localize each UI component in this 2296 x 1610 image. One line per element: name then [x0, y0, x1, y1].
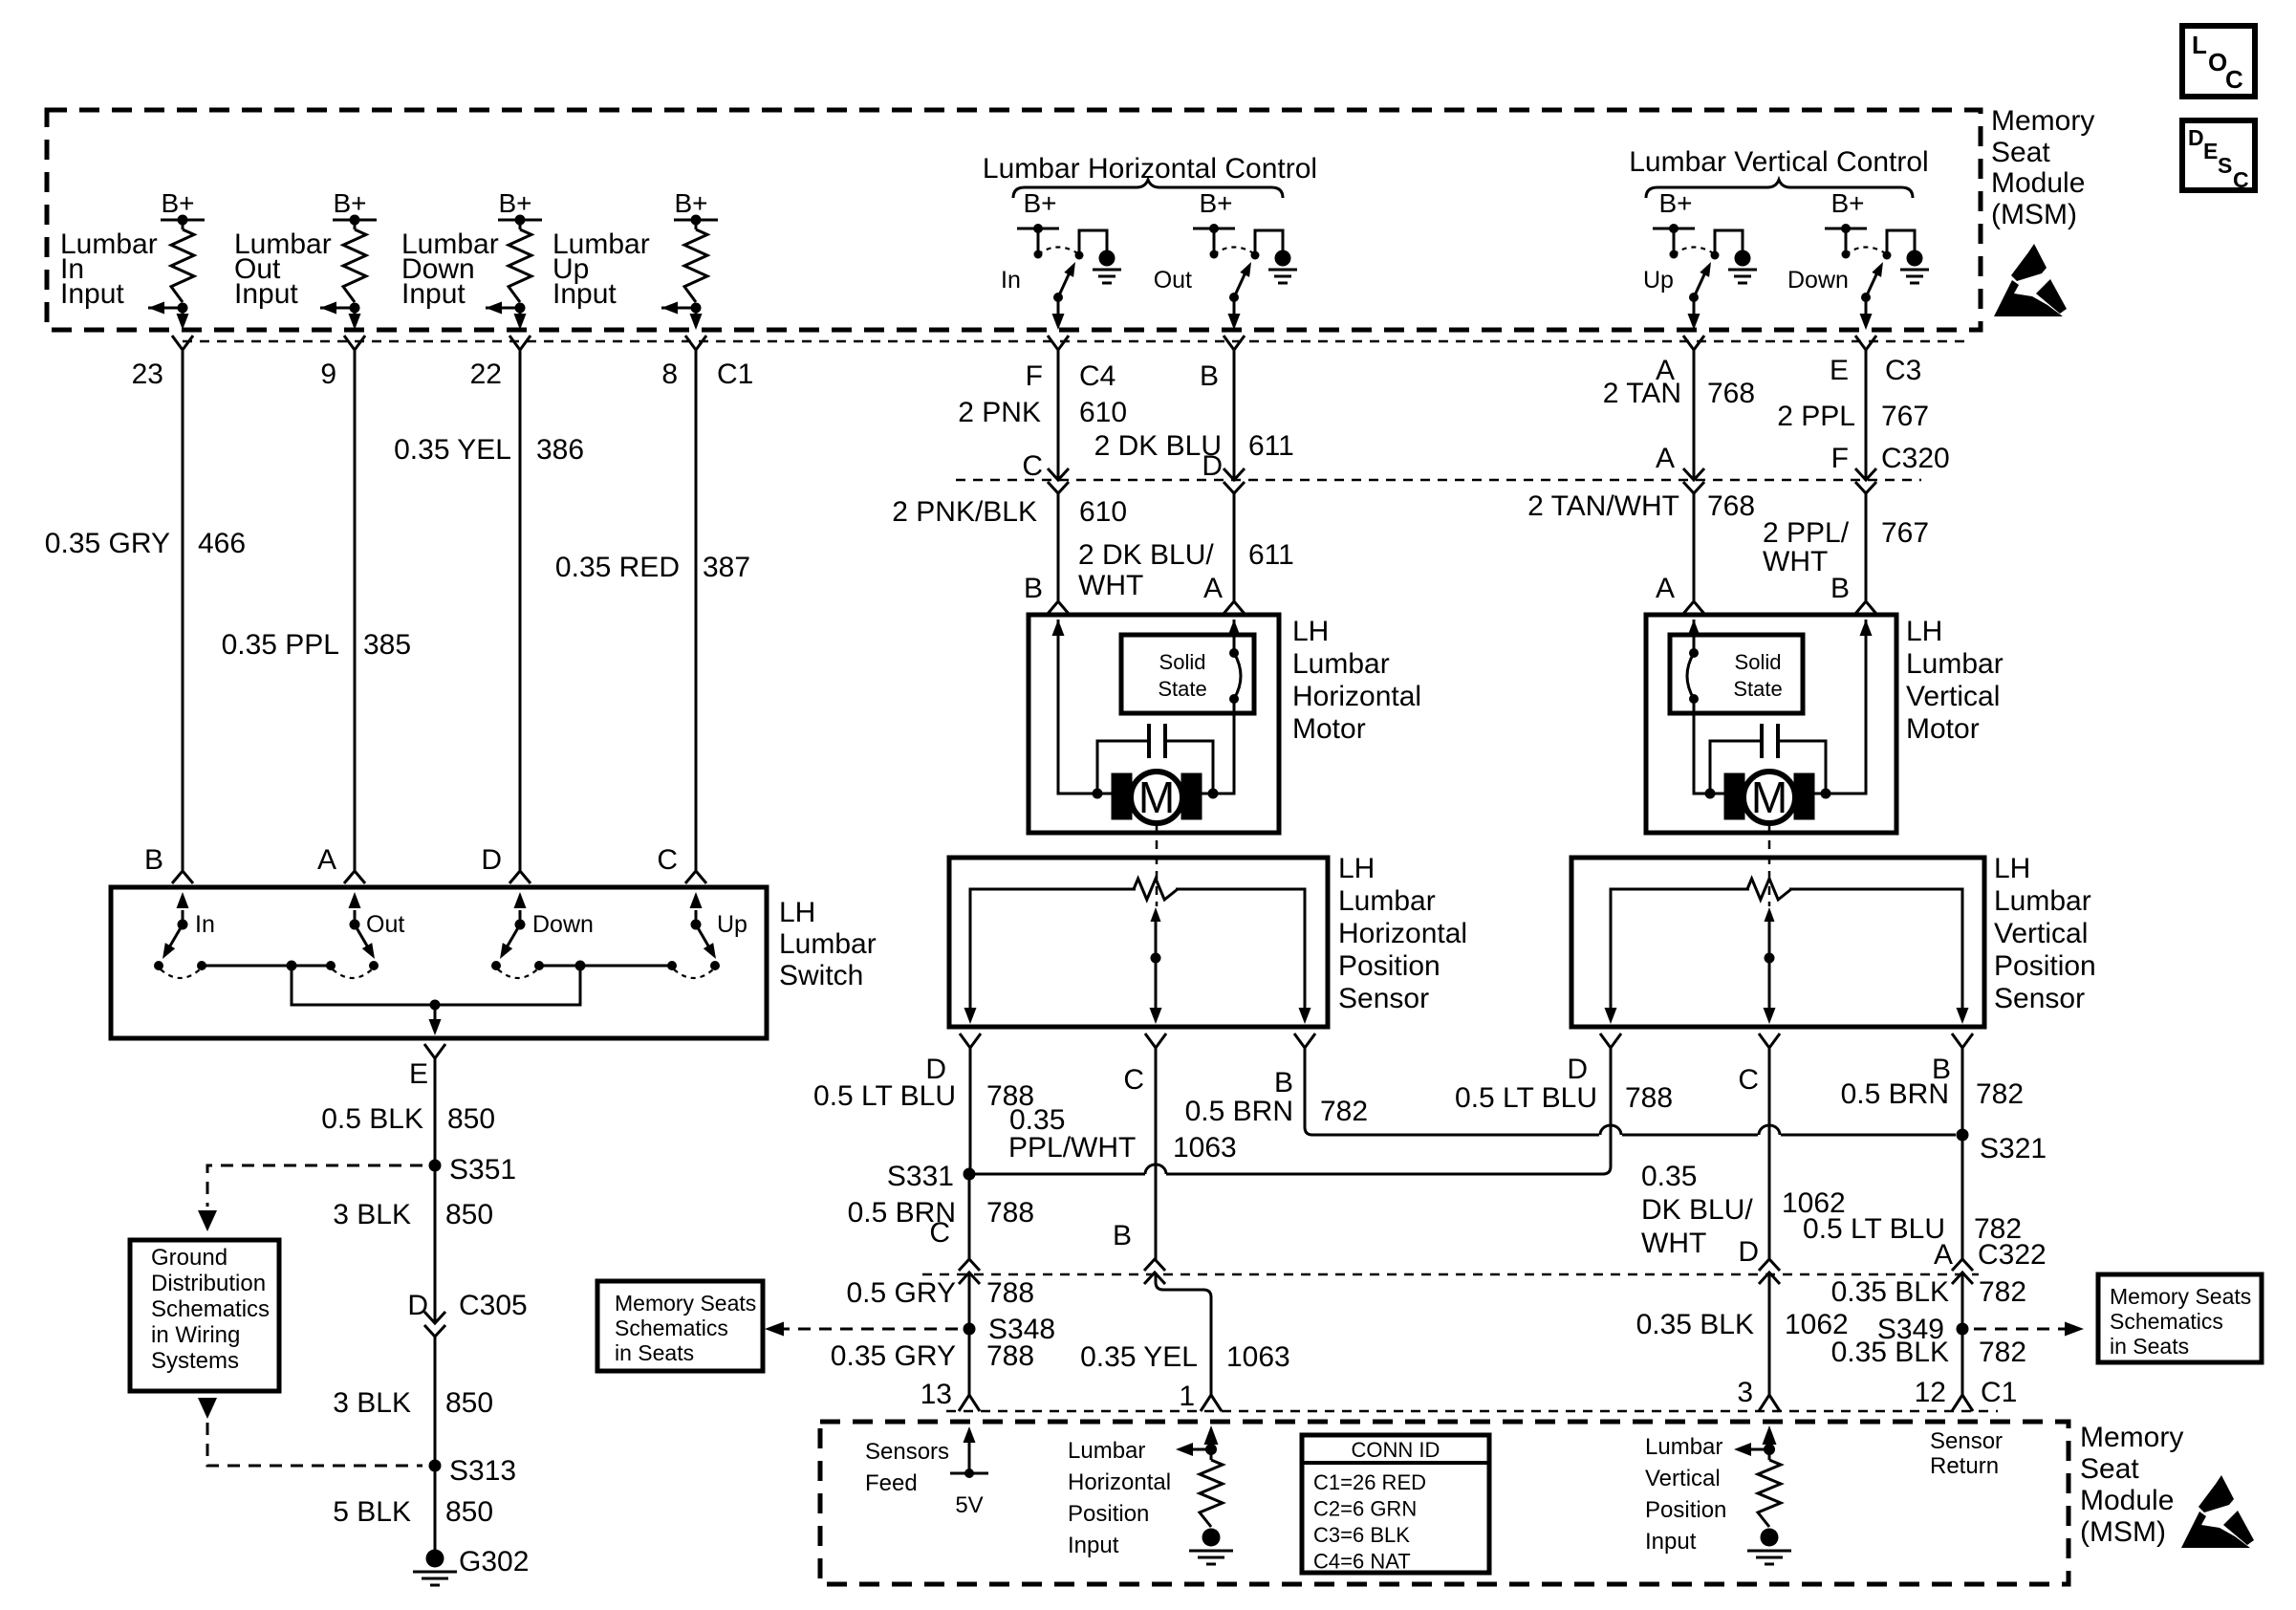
LOC reference box [2182, 26, 2255, 97]
wire Horizontal feed left [1052, 620, 1113, 794]
wire 0.35 GRY 466 (pin 23 to switch B) [45, 350, 246, 870]
splice S348 [964, 1314, 1056, 1345]
label LH Lumbar Switch [779, 897, 877, 991]
svg-text:0.35 BLK: 0.35 BLK [1636, 1309, 1754, 1340]
svg-text:5V: 5V [955, 1492, 983, 1518]
switch pole Up [667, 892, 747, 978]
wire 0.35 BLK 782 (upper, to S349) [1831, 1273, 2027, 1323]
svg-text:A: A [1656, 573, 1675, 604]
splice S349 [1877, 1314, 1969, 1345]
svg-text:Sensor: Sensor [1930, 1428, 2003, 1454]
svg-text:387: 387 [703, 552, 750, 583]
control switch Lumbar Out (MSM output B) [1154, 188, 1297, 330]
wire 2 PPL 767 [1777, 350, 1929, 480]
wire Horizontal feed right [1202, 620, 1241, 794]
svg-text:C322: C322 [1978, 1239, 2047, 1271]
svg-text:B+: B+ [161, 188, 194, 218]
svg-text:3: 3 [1737, 1377, 1753, 1408]
svg-text:0.5 BLK: 0.5 BLK [321, 1103, 423, 1135]
svg-text:3 BLK: 3 BLK [333, 1199, 411, 1230]
svg-text:B+: B+ [674, 188, 707, 218]
switch pin B [144, 844, 193, 883]
reference box Memory Seats Schematics in Seats (right) [2098, 1274, 2262, 1362]
node/output arrow of R1 Lumbar In pull-up [148, 302, 189, 331]
motor pin A (vertical) [1656, 573, 1704, 614]
svg-text:Seat: Seat [1991, 137, 2050, 168]
motor box Horizontal [1029, 615, 1279, 833]
svg-text:385: 385 [363, 629, 411, 661]
wire 2 DK BLU/WHT 611 [1078, 493, 1294, 601]
motor M with brushes [1724, 772, 1814, 823]
motor box Vertical [1646, 615, 1896, 833]
svg-text:850: 850 [445, 1496, 493, 1528]
wire 0.5 BLK 850 [321, 1058, 495, 1165]
svg-text:State: State [1733, 677, 1782, 701]
svg-text:610: 610 [1079, 397, 1127, 428]
svg-text:L: L [2192, 31, 2207, 59]
suppression capacitor [1705, 724, 1831, 799]
svg-text:Down: Down [532, 911, 594, 938]
svg-text:B+: B+ [1199, 188, 1232, 218]
svg-text:LH: LH [1906, 616, 1942, 647]
pin 8 / connector C1 [661, 336, 753, 390]
in-line connector pin A C322 [1934, 1239, 2047, 1284]
svg-text:C4=6 NAT: C4=6 NAT [1313, 1550, 1411, 1574]
pin 23 [132, 336, 193, 390]
svg-text:A: A [1656, 443, 1675, 474]
svg-text:C305: C305 [459, 1290, 528, 1321]
position sensor box Horizontal [949, 858, 1328, 1027]
svg-text:Horizontal: Horizontal [1338, 918, 1467, 949]
svg-text:C: C [2225, 65, 2243, 94]
svg-text:Input: Input [552, 278, 617, 310]
svg-text:2 PNK: 2 PNK [958, 397, 1041, 428]
in-line connector F C320 [1831, 443, 1950, 493]
svg-text:Memory Seats: Memory Seats [2110, 1284, 2251, 1309]
svg-text:S321: S321 [1980, 1133, 2047, 1164]
motor pin B [1024, 573, 1069, 614]
wire 5 BLK 850 [333, 1466, 493, 1550]
svg-text:Module: Module [1991, 167, 2085, 199]
svg-text:LH: LH [1338, 853, 1375, 884]
svg-text:Out: Out [1154, 267, 1192, 294]
switch pin A [317, 844, 365, 883]
svg-text:S313: S313 [449, 1455, 516, 1487]
wire 2 TAN 768 [1603, 350, 1755, 480]
svg-text:B+: B+ [498, 188, 531, 218]
label Lumbar Horizontal Position Input [1068, 1438, 1171, 1558]
svg-text:(MSM): (MSM) [2080, 1516, 2166, 1548]
svg-text:Seat: Seat [2080, 1453, 2139, 1485]
svg-text:788: 788 [986, 1340, 1034, 1372]
svg-text:9: 9 [320, 359, 336, 390]
svg-text:B+: B+ [1830, 188, 1864, 218]
svg-text:0.5 BRN: 0.5 BRN [1185, 1096, 1293, 1127]
svg-text:0.35 PPL: 0.35 PPL [222, 629, 339, 661]
svg-text:5 BLK: 5 BLK [333, 1496, 411, 1528]
B+ supply 4 [674, 188, 718, 226]
ESD sensitive device symbol top [1994, 244, 2067, 316]
svg-text:C: C [657, 844, 678, 876]
svg-text:466: 466 [198, 528, 246, 559]
pin 22 [470, 336, 531, 390]
wire 0.35 PPL/WHT 1063 (sensor C) [1008, 1048, 1237, 1259]
splice S321 [1957, 1129, 2047, 1165]
svg-text:Up: Up [717, 911, 747, 938]
potentiometer wiper [1764, 907, 1776, 1024]
control switch Lumbar In (MSM output F) [1001, 188, 1121, 330]
node/output arrow of R2 Lumbar Out pull-up [320, 302, 361, 331]
switch internal bus wiring [202, 961, 672, 1036]
lumbar horizontal position input load resistor [1176, 1425, 1233, 1564]
svg-text:State: State [1158, 677, 1206, 701]
svg-text:0.35 RED: 0.35 RED [555, 552, 680, 583]
svg-text:D: D [1738, 1236, 1759, 1268]
label Memory Seat Module (MSM) top right [1991, 105, 2094, 230]
svg-text:Sensors: Sensors [865, 1439, 949, 1465]
svg-text:Horizontal: Horizontal [1292, 681, 1421, 712]
svg-text:Lumbar: Lumbar [1068, 1438, 1145, 1464]
wire 0.35 DK BLU/WHT 1062 (vertical sensor C) [1641, 1048, 1846, 1259]
svg-text:1063: 1063 [1226, 1341, 1290, 1373]
svg-text:Lumbar Horizontal Control: Lumbar Horizontal Control [983, 153, 1317, 185]
svg-text:B+: B+ [333, 188, 366, 218]
wire 3 BLK 850 (upper) [333, 1165, 493, 1323]
svg-text:Input: Input [1068, 1533, 1119, 1558]
resistor R2 Lumbar Out pull-up [343, 220, 366, 302]
Memory Seat Module top dashed box [47, 110, 1981, 330]
potentiometer wiper [1150, 907, 1162, 1024]
svg-text:C: C [2233, 167, 2249, 192]
svg-text:386: 386 [536, 434, 584, 466]
brace Lumbar Vertical Control [1646, 180, 1913, 198]
svg-text:Sensor: Sensor [1338, 983, 1429, 1014]
svg-text:Input: Input [60, 278, 124, 310]
svg-text:Input: Input [401, 278, 466, 310]
svg-text:Schematics: Schematics [2110, 1309, 2223, 1334]
thermal contact arc inside solid state box [1229, 648, 1241, 704]
svg-text:B: B [1200, 360, 1219, 392]
svg-text:Lumbar: Lumbar [1338, 885, 1436, 917]
svg-text:2 DK BLU/: 2 DK BLU/ [1078, 539, 1214, 571]
DESC reference box [2182, 120, 2255, 192]
splice S331 [887, 1161, 976, 1192]
label Lumbar Down Input [401, 228, 499, 310]
svg-text:Lumbar: Lumbar [1906, 648, 2004, 680]
svg-text:788: 788 [986, 1277, 1034, 1309]
label Sensors Feed [865, 1439, 949, 1496]
label LH Lumbar Vertical Motor [1906, 616, 2004, 745]
svg-text:Input: Input [1645, 1529, 1697, 1555]
node/output arrow of R4 Lumbar Up pull-up [661, 302, 703, 331]
svg-text:Vertical: Vertical [1906, 681, 2000, 712]
svg-text:Motor: Motor [1906, 713, 1980, 745]
svg-text:D: D [1567, 1054, 1588, 1085]
svg-text:2 TAN: 2 TAN [1603, 378, 1681, 409]
in-line connector pin B (left) [1113, 1220, 1165, 1284]
svg-text:0.5 LT BLU: 0.5 LT BLU [813, 1080, 956, 1112]
solid state control box [1121, 635, 1254, 713]
in-line connector pin D (C322) [1738, 1236, 1780, 1284]
wire 2 TAN/WHT 768 [1527, 490, 1755, 600]
svg-text:Vertical: Vertical [1994, 918, 2088, 949]
svg-text:D: D [1202, 450, 1223, 482]
dashed reference link S351 to Ground Distribution box [198, 1165, 422, 1231]
svg-text:Schematics: Schematics [151, 1296, 270, 1322]
label Sensor Return [1930, 1428, 2003, 1479]
wire 2 PNK 610 [958, 350, 1127, 480]
label Lumbar Vertical Position Input [1645, 1434, 1726, 1555]
connector C1 fine dashed line (bottom) [946, 1410, 1998, 1413]
svg-text:In: In [1001, 267, 1021, 294]
svg-text:B+: B+ [1023, 188, 1056, 218]
wire 2 PPL/WHT 767 [1763, 493, 1929, 600]
svg-text:in Wiring: in Wiring [151, 1322, 240, 1348]
svg-text:2 PPL/: 2 PPL/ [1763, 517, 1850, 549]
svg-text:782: 782 [1320, 1096, 1368, 1127]
motor pin A [1203, 573, 1245, 614]
MSM pin 12 / connector C1 [1915, 1377, 2018, 1411]
svg-text:B: B [1024, 573, 1043, 604]
svg-text:782: 782 [1979, 1276, 2026, 1308]
svg-text:788: 788 [986, 1197, 1034, 1229]
reference box Memory Seats Schematics in Seats (left) [597, 1281, 763, 1371]
svg-text:Motor: Motor [1292, 713, 1366, 745]
resistor R3 Lumbar Down pull-up [509, 220, 531, 302]
svg-text:E: E [2203, 139, 2218, 163]
MSM pin 1 [1179, 1381, 1222, 1412]
svg-text:Position: Position [1994, 950, 2096, 982]
svg-text:WHT: WHT [1763, 546, 1828, 577]
svg-text:0.5 GRY: 0.5 GRY [846, 1277, 956, 1309]
svg-text:850: 850 [445, 1199, 493, 1230]
in-line connector C (pin C to F) [1022, 450, 1069, 493]
5V sensors feed stub [950, 1426, 988, 1518]
svg-text:E: E [1830, 355, 1849, 386]
svg-text:768: 768 [1707, 490, 1755, 522]
ground G302 [413, 1546, 529, 1585]
dashed reference link S348 to Memory Seats box [765, 1322, 958, 1337]
wire 2 DK BLU 611 [1094, 350, 1294, 480]
svg-text:767: 767 [1881, 401, 1929, 432]
svg-text:in Seats: in Seats [2110, 1334, 2189, 1359]
solid state control box [1670, 635, 1803, 713]
svg-text:A: A [1934, 1239, 1953, 1271]
switch common pin E [409, 1044, 445, 1090]
svg-text:A: A [1203, 573, 1223, 604]
svg-text:In: In [195, 911, 215, 938]
svg-text:S351: S351 [449, 1154, 516, 1186]
svg-text:Sensor: Sensor [1994, 983, 2085, 1014]
wire 0.5 LT BLU 788 (sensor D down to S331) [813, 1048, 1034, 1168]
svg-text:2 TAN/WHT: 2 TAN/WHT [1527, 490, 1679, 522]
dashed mechanical link motor to position sensor [1156, 825, 1159, 906]
svg-text:1: 1 [1179, 1381, 1195, 1412]
label Memory Seat Module (MSM) bottom right [2080, 1422, 2183, 1548]
svg-text:Vertical: Vertical [1645, 1466, 1721, 1491]
svg-text:C3: C3 [1885, 355, 1921, 386]
svg-text:782: 782 [1979, 1337, 2026, 1368]
potentiometer resistance track [1605, 879, 1969, 1024]
svg-text:D: D [481, 844, 502, 876]
svg-text:WHT: WHT [1078, 570, 1143, 601]
svg-text:LH: LH [779, 897, 815, 928]
switch pole In [154, 892, 215, 978]
wire 0.35 RED 387 (pin 8 to switch C) [555, 350, 750, 870]
svg-text:D: D [407, 1290, 428, 1321]
motor pin B (vertical) [1830, 573, 1876, 614]
wire 2 PNK/BLK 610 [892, 493, 1127, 600]
svg-text:2 PPL: 2 PPL [1777, 401, 1855, 432]
ESD sensitive device symbol bottom [2181, 1475, 2254, 1548]
svg-text:0.5 BRN: 0.5 BRN [1841, 1078, 1949, 1110]
wire 0.5 LT BLU 782 (S321 down) [1803, 1135, 2022, 1259]
svg-text:788: 788 [1625, 1082, 1673, 1114]
svg-text:Memory: Memory [1991, 105, 2094, 137]
B+ supply 1 [161, 188, 205, 226]
svg-text:B+: B+ [1658, 188, 1692, 218]
in-line connector C305 pin D [407, 1290, 527, 1337]
svg-text:850: 850 [447, 1103, 495, 1135]
svg-text:LH: LH [1994, 853, 2030, 884]
svg-text:D: D [2188, 125, 2204, 150]
wire 0.35 GRY 788 (S348 to MSM pin 13) [831, 1329, 1034, 1395]
label LH Lumbar Horizontal Motor [1292, 616, 1421, 745]
svg-text:Position: Position [1068, 1501, 1149, 1527]
svg-text:CONN ID: CONN ID [1352, 1438, 1440, 1462]
svg-text:Lumbar Vertical Control: Lumbar Vertical Control [1629, 146, 1928, 178]
label Lumbar In Input [60, 228, 158, 310]
svg-text:Module: Module [2080, 1485, 2174, 1516]
svg-text:Down: Down [1787, 267, 1849, 294]
svg-text:Ground: Ground [151, 1245, 227, 1271]
svg-text:C: C [1123, 1064, 1144, 1096]
svg-text:0.35 GRY: 0.35 GRY [831, 1340, 956, 1372]
svg-text:G302: G302 [459, 1546, 529, 1577]
svg-text:(MSM): (MSM) [1991, 199, 2077, 230]
wire 0.35 BLK 1062 (to MSM pin 3) [1636, 1273, 1849, 1395]
motor M with brushes [1112, 772, 1202, 823]
svg-text:611: 611 [1248, 430, 1294, 462]
svg-text:Memory Seats: Memory Seats [615, 1291, 756, 1316]
svg-text:Lumbar: Lumbar [1292, 648, 1390, 680]
wire 3 BLK 850 (lower) [333, 1337, 493, 1466]
wire 0.5 BRN 782 (vertical sensor B to S321) [1841, 1048, 2024, 1129]
svg-text:Lumbar: Lumbar [1994, 885, 2091, 917]
svg-text:C4: C4 [1079, 360, 1116, 392]
svg-text:C1: C1 [1981, 1377, 2017, 1408]
wire 788 link S331 to vertical sensor D [969, 1048, 1611, 1174]
dashed reference link S349 to Memory Seats box (right) [1974, 1322, 2084, 1337]
svg-text:B: B [1830, 573, 1850, 604]
reference box Ground Distribution Schematics in Wiring Systems [130, 1240, 279, 1391]
svg-text:PPL/WHT: PPL/WHT [1008, 1132, 1136, 1164]
Memory Seat Module bottom dashed box [820, 1422, 2069, 1584]
sensor pins D C B [1600, 1033, 1973, 1048]
svg-text:F: F [1831, 443, 1849, 474]
wire 0.35 YEL 1063 (to MSM pin 1) [1080, 1273, 1290, 1395]
svg-text:E: E [409, 1058, 428, 1090]
svg-text:0.35 BLK: 0.35 BLK [1831, 1276, 1949, 1308]
connector pins A / E C3 [1656, 336, 1704, 386]
B+ supply 2 [333, 188, 377, 226]
wire 0.5 BRN 788 (S331 down to pin C) [848, 1174, 1034, 1259]
MSM pin 13 [921, 1379, 980, 1411]
control switch Lumbar Up (MSM output A) [1643, 188, 1757, 330]
svg-text:3 BLK: 3 BLK [333, 1387, 411, 1419]
svg-text:C1=26 RED: C1=26 RED [1313, 1470, 1426, 1494]
position sensor box Vertical [1571, 858, 1984, 1027]
in-line connector pin C (left) [929, 1217, 980, 1284]
svg-text:Distribution: Distribution [151, 1271, 266, 1296]
wire 0.35 PPL 385 (pin 9 to switch A) [222, 350, 412, 870]
in-line connector A (C320) [1656, 443, 1704, 493]
svg-text:1063: 1063 [1173, 1132, 1237, 1164]
svg-text:782: 782 [1976, 1078, 2024, 1110]
lumbar vertical position input load resistor [1734, 1425, 1791, 1564]
svg-text:Position: Position [1338, 950, 1440, 982]
svg-text:M: M [1751, 772, 1787, 822]
connector C1 fine dashed line (top) [183, 340, 1971, 343]
svg-text:C1: C1 [717, 359, 753, 390]
svg-text:C2=6 GRN: C2=6 GRN [1313, 1497, 1417, 1521]
in-line connector fine dashed line (middle) [956, 479, 1921, 482]
svg-text:C3=6 BLK: C3=6 BLK [1313, 1523, 1410, 1547]
svg-text:Horizontal: Horizontal [1068, 1469, 1171, 1495]
sensor pins D C B [960, 1033, 1315, 1048]
svg-text:Return: Return [1930, 1453, 1999, 1479]
svg-text:2 PNK/BLK: 2 PNK/BLK [892, 496, 1037, 528]
svg-text:Solid: Solid [1159, 650, 1206, 674]
svg-text:Lumbar: Lumbar [779, 928, 877, 960]
svg-text:A: A [317, 844, 336, 876]
svg-text:23: 23 [132, 359, 163, 390]
label LH Lumbar Vertical Position Sensor [1994, 853, 2096, 1014]
wire 0.35 BLK 782 (S349 to MSM pin 12) [1831, 1329, 2027, 1395]
wire 0.5 LT BLU 788 label (vertical sensor D) [1455, 1082, 1673, 1114]
resistor R4 Lumbar Up pull-up [684, 220, 707, 302]
svg-text:C: C [1022, 450, 1043, 482]
switch box LH Lumbar Switch [111, 887, 767, 1038]
suppression capacitor [1093, 724, 1219, 799]
connector pins F C4 / B [1026, 336, 1116, 392]
svg-text:Switch: Switch [779, 960, 863, 991]
svg-text:850: 850 [445, 1387, 493, 1419]
svg-text:0.35 YEL: 0.35 YEL [394, 434, 511, 466]
svg-text:Lumbar: Lumbar [1645, 1434, 1722, 1460]
wire 0.5 BRN 782 (sensor B to S321) [1185, 1048, 1956, 1135]
svg-text:LH: LH [1292, 616, 1329, 647]
switch pole Down [491, 892, 594, 978]
svg-text:0.5 LT BLU: 0.5 LT BLU [1803, 1213, 1945, 1245]
svg-text:C: C [929, 1217, 950, 1249]
label LH Lumbar Horizontal Position Sensor [1338, 853, 1467, 1014]
dashed reference link Ground Distribution box to S313 [198, 1398, 422, 1466]
CONN ID table [1302, 1435, 1489, 1574]
svg-text:0.35 BLK: 0.35 BLK [1831, 1337, 1949, 1368]
svg-text:Feed: Feed [865, 1470, 918, 1496]
label Lumbar Out Input [234, 228, 332, 310]
svg-text:Schematics: Schematics [615, 1316, 728, 1340]
svg-text:Up: Up [1643, 267, 1674, 294]
resistor R1 Lumbar In pull-up [171, 220, 194, 302]
svg-text:Out: Out [366, 911, 404, 938]
svg-text:Solid: Solid [1735, 650, 1782, 674]
svg-text:WHT: WHT [1641, 1228, 1706, 1259]
switch pin C [657, 844, 706, 883]
control switch Lumbar Down (MSM output E) [1787, 188, 1929, 330]
splice S313 [429, 1455, 517, 1487]
